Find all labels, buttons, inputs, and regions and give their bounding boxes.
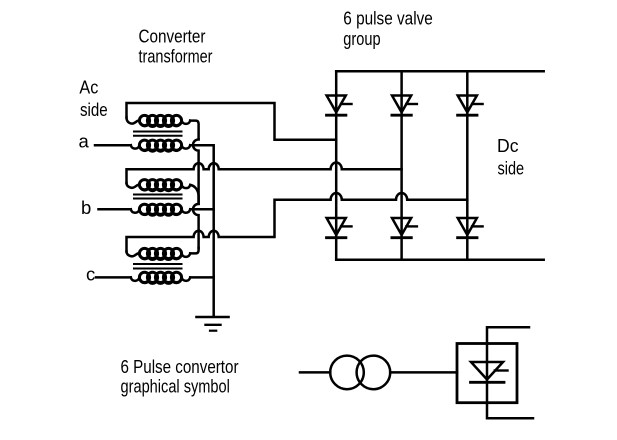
transformer T3 primary winding (phase c, lower) xyxy=(131,277,140,280)
label 6 Pulse convertor graphical symbol xyxy=(121,356,239,397)
wire T3 secondary to valve-side neutral end xyxy=(190,248,198,253)
thyristor V4 xyxy=(327,218,352,238)
wire valve-side neutral bus (with jogs around crossing wires) xyxy=(193,139,199,248)
wire symbol mid lead xyxy=(390,371,457,374)
label Ac side xyxy=(79,76,107,120)
svg-text:6 pulse valve: 6 pulse valve xyxy=(343,7,433,28)
transformer T2 primary winding (phase b, lower) xyxy=(131,209,140,212)
wire phase a input xyxy=(95,144,131,147)
wire symbol thyristor stem xyxy=(486,344,489,403)
label Converter transformer xyxy=(139,25,213,66)
svg-text:Dc: Dc xyxy=(497,135,519,156)
wire phase b input xyxy=(99,208,131,211)
transformer T3 core xyxy=(134,263,182,265)
wire valve leg 2 xyxy=(400,71,403,259)
transformer T1 core xyxy=(134,131,182,133)
ground xyxy=(197,316,229,319)
transformer T2 secondary winding (valve side, upper) xyxy=(127,183,140,188)
wire symbol DC bottom tail xyxy=(487,403,533,419)
wire ground neutral bus xyxy=(212,209,215,316)
wire transformer c valve-side top link (hops over neutrals and legs 1,2) xyxy=(127,193,468,252)
transformer T1 secondary winding (valve side, upper) xyxy=(127,118,140,124)
wire DC bottom rail xyxy=(336,259,544,262)
svg-text:c: c xyxy=(86,263,95,284)
symbol thyristor xyxy=(471,362,508,382)
svg-text:a: a xyxy=(79,131,90,152)
label 6 pulse valve group xyxy=(343,7,433,49)
svg-text:Converter: Converter xyxy=(139,25,206,46)
wire valve leg 1 xyxy=(335,71,338,259)
svg-text:side: side xyxy=(80,99,108,120)
svg-text:group: group xyxy=(343,28,380,49)
svg-text:graphical symbol: graphical symbol xyxy=(121,376,230,397)
svg-text:6 Pulse convertor: 6 Pulse convertor xyxy=(121,356,239,377)
thyristor V1 xyxy=(327,96,352,116)
label Dc side xyxy=(497,135,524,179)
transformer T3 secondary winding (valve side, upper) xyxy=(127,252,140,257)
symbol transformer circle 1 xyxy=(330,356,364,390)
wire symbol DC top tail xyxy=(487,327,529,343)
svg-text:transformer: transformer xyxy=(139,46,213,67)
wire T2 secondary to valve-side neutral xyxy=(190,185,198,204)
thyristor V3 xyxy=(392,96,417,116)
thyristor V6 xyxy=(392,218,417,238)
transformer T2 core xyxy=(134,194,182,196)
wire phase c input xyxy=(96,276,131,279)
symbol transformer circle 2 xyxy=(357,356,391,390)
svg-text:side: side xyxy=(498,158,525,179)
wire transformer b valve-side top link (hops over neutrals and leg 1) xyxy=(127,163,402,183)
wire T1 primary to ground neutral xyxy=(190,145,214,209)
transformer T1 primary winding (phase a, lower) xyxy=(131,145,140,148)
wire T1 secondary to valve-side neutral xyxy=(190,121,198,140)
wire DC top rail xyxy=(336,70,544,73)
wire T3 primary to ground neutral xyxy=(190,276,214,279)
symbol converter box xyxy=(457,344,517,403)
thyristor V2 xyxy=(458,218,483,238)
wire symbol AC lead xyxy=(300,371,330,374)
wire valve leg 3 xyxy=(466,71,469,259)
svg-text:b: b xyxy=(81,197,91,218)
wire T2 primary to ground neutral xyxy=(190,208,214,211)
svg-text:Ac: Ac xyxy=(79,76,98,97)
wire transformer a valve-side top link xyxy=(127,103,337,140)
thyristor V5 xyxy=(458,96,483,116)
